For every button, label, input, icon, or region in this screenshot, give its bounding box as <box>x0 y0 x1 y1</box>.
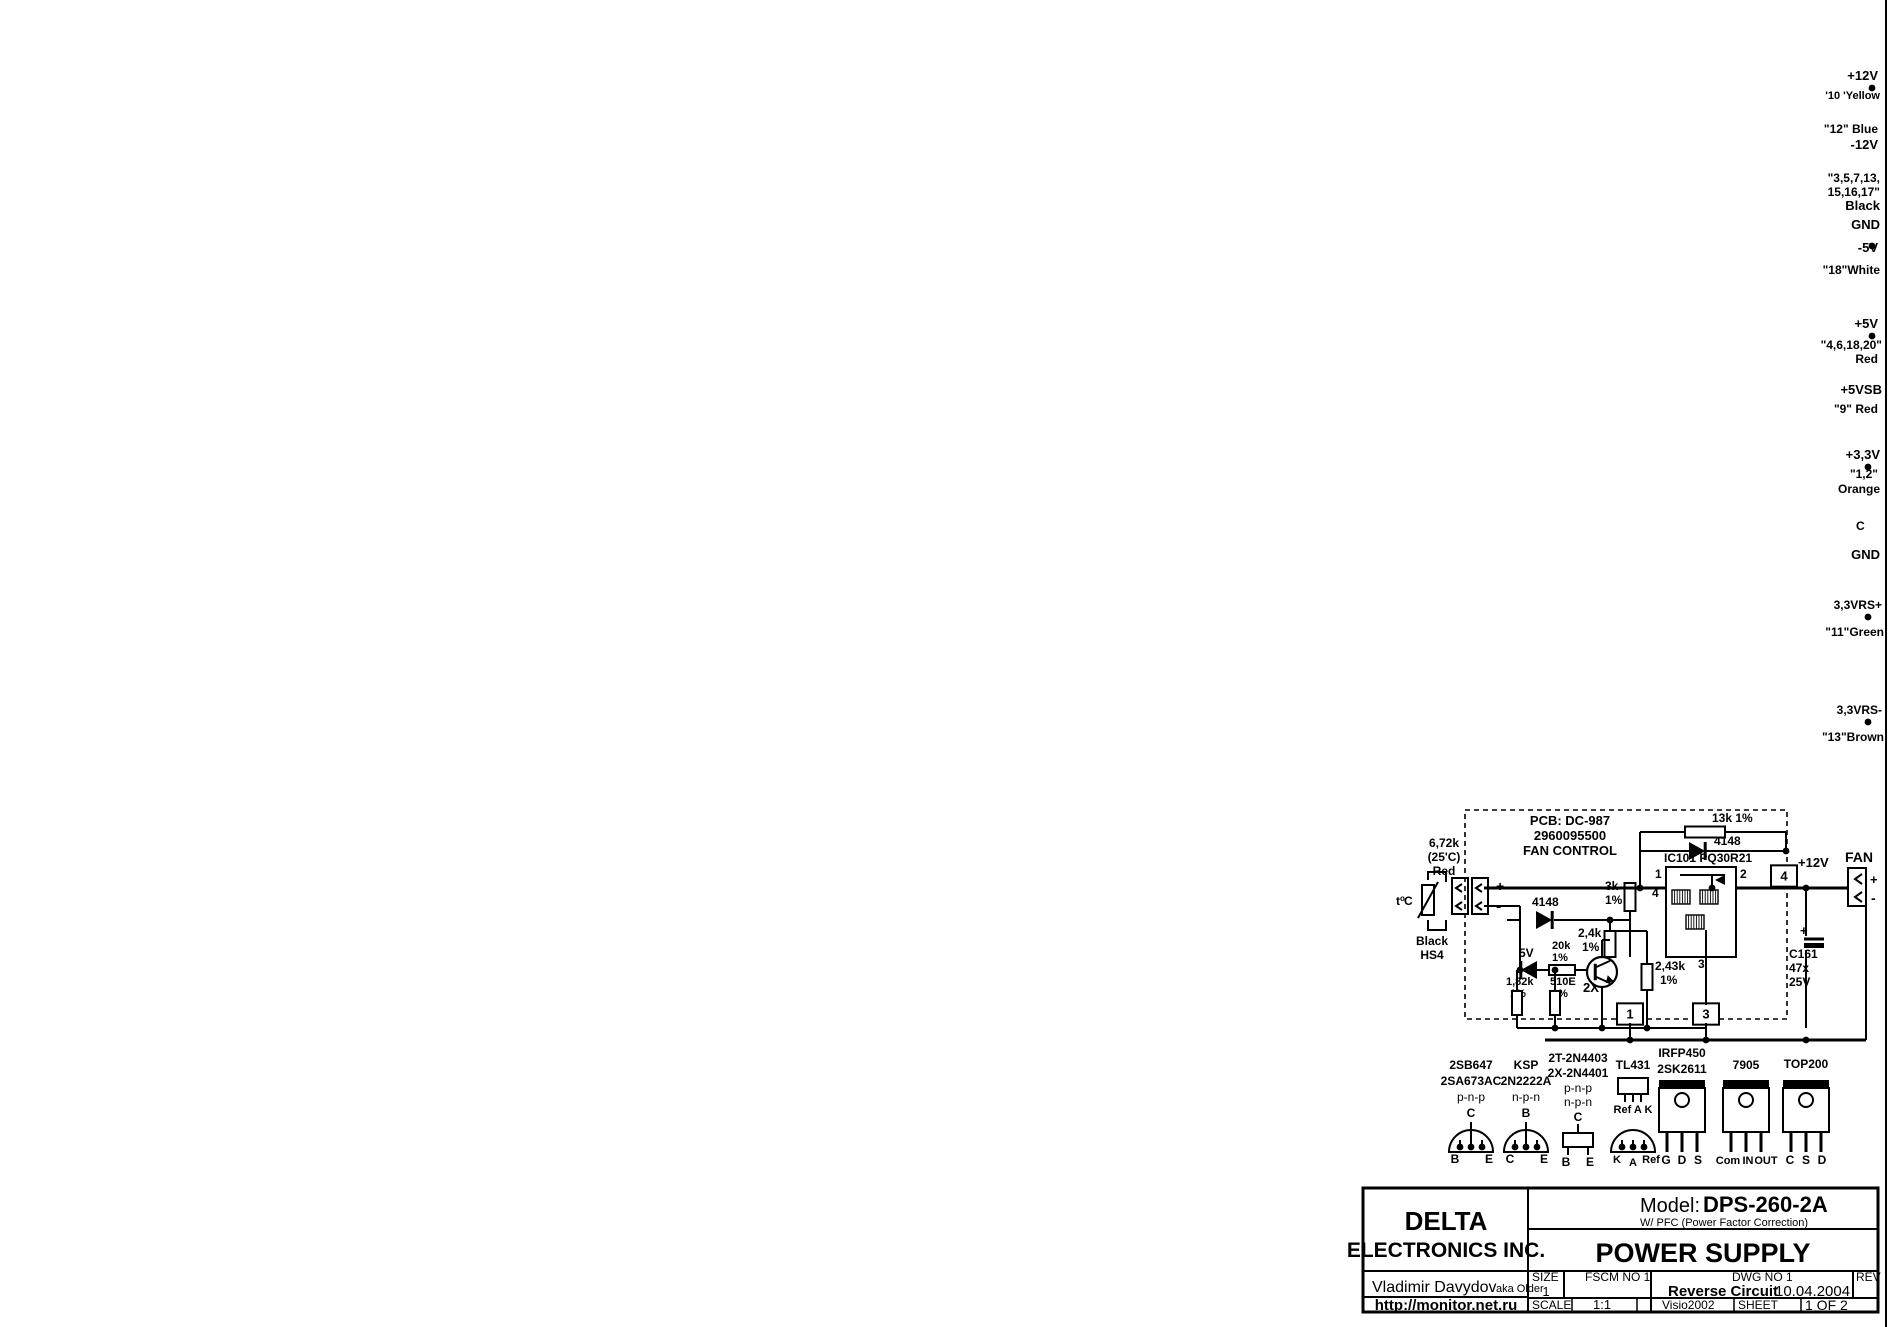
svg-text:p-n-p: p-n-p <box>1457 1090 1485 1104</box>
svg-text:IC101 PQ30R21: IC101 PQ30R21 <box>1664 851 1752 865</box>
svg-text:B: B <box>1562 1155 1571 1169</box>
right border <box>1885 0 1887 1327</box>
svg-text:S: S <box>1802 1153 1810 1167</box>
svg-text:7905: 7905 <box>1733 1058 1760 1072</box>
svg-text:C: C <box>1467 1106 1476 1120</box>
svg-text:C: C <box>1786 1153 1795 1167</box>
svg-text:KSP: KSP <box>1514 1058 1539 1072</box>
svg-text:2SA673AC: 2SA673AC <box>1441 1074 1502 1088</box>
svg-text:13k 1%: 13k 1% <box>1712 811 1753 825</box>
fan bottom wire <box>1629 1023 1631 1040</box>
svg-text:D: D <box>1678 1153 1687 1167</box>
svg-text:2: 2 <box>1740 867 1747 881</box>
svg-text:n-p-n: n-p-n <box>1564 1095 1592 1109</box>
svg-text:E: E <box>1485 1152 1493 1166</box>
svg-text:Black: Black <box>1845 198 1880 213</box>
svg-text:5V: 5V <box>1519 946 1534 960</box>
svg-text:1,82k: 1,82k <box>1506 976 1534 988</box>
fan wires <box>1484 887 1666 890</box>
svg-text:SCALE: SCALE <box>1532 1298 1571 1312</box>
svg-text:6,72k: 6,72k <box>1429 836 1459 850</box>
svg-text:2960095500: 2960095500 <box>1534 828 1606 843</box>
svg-text:POWER SUPPLY: POWER SUPPLY <box>1595 1238 1810 1268</box>
svg-text:2N2222A: 2N2222A <box>1501 1074 1552 1088</box>
svg-text:1%: 1% <box>1552 952 1568 964</box>
svg-text:n-p-n: n-p-n <box>1512 1090 1540 1104</box>
svg-text:15,16,17": 15,16,17" <box>1828 185 1880 199</box>
svg-text:25V: 25V <box>1789 975 1810 989</box>
svg-text:p-n-p: p-n-p <box>1564 1081 1592 1095</box>
svg-text:Model:: Model: <box>1640 1195 1700 1217</box>
svg-text:1%: 1% <box>1582 940 1600 954</box>
svg-text:Vladimir Davydov: Vladimir Davydov <box>1372 1279 1496 1296</box>
svg-text:HS4: HS4 <box>1420 948 1444 962</box>
svg-text:TOP200: TOP200 <box>1784 1057 1829 1071</box>
svg-text:1:1: 1:1 <box>1593 1297 1611 1312</box>
svg-text:FSCM NO 1: FSCM NO 1 <box>1585 1270 1651 1284</box>
svg-text:S: S <box>1694 1153 1702 1167</box>
svg-text:E: E <box>1586 1155 1594 1169</box>
svg-text:+: + <box>1870 872 1878 887</box>
fan conn 4 <box>1771 865 1797 886</box>
svg-text:20k: 20k <box>1552 940 1571 952</box>
svg-text:OUT: OUT <box>1754 1155 1778 1167</box>
svg-text:C: C <box>1506 1152 1515 1166</box>
svg-text:Visio2002: Visio2002 <box>1662 1298 1715 1312</box>
svg-text:1: 1 <box>1626 1007 1633 1022</box>
svg-text:W/ PFC (Power Factor Correctio: W/ PFC (Power Factor Correction) <box>1640 1217 1808 1229</box>
svg-text:1 OF 2: 1 OF 2 <box>1805 1297 1848 1313</box>
svg-text:+3,3V: +3,3V <box>1846 447 1881 462</box>
svg-text:ELECTRONICS INC.: ELECTRONICS INC. <box>1347 1239 1545 1262</box>
svg-text:C: C <box>1404 894 1413 908</box>
svg-text:"3,5,7,13,: "3,5,7,13, <box>1828 171 1880 185</box>
svg-text:SIZE: SIZE <box>1532 1270 1559 1284</box>
svg-text:4: 4 <box>1780 869 1788 884</box>
svg-text:-12V: -12V <box>1851 137 1879 152</box>
svg-text:Red: Red <box>1855 352 1878 366</box>
svg-text:http://monitor.net.ru: http://monitor.net.ru <box>1375 1297 1517 1314</box>
svg-text:1%: 1% <box>1605 893 1623 907</box>
svg-text:IRFP450: IRFP450 <box>1658 1046 1706 1060</box>
fan conn 1 <box>1617 1003 1643 1024</box>
svg-text:FAN CONTROL: FAN CONTROL <box>1523 843 1617 858</box>
svg-text:+5VSB: +5VSB <box>1840 382 1882 397</box>
svg-text:A: A <box>1629 1157 1637 1169</box>
svg-text:4148: 4148 <box>1532 895 1559 909</box>
svg-text:"11"Green: "11"Green <box>1825 625 1884 639</box>
svg-text:4148: 4148 <box>1714 834 1741 848</box>
svg-text:GND: GND <box>1851 547 1880 562</box>
svg-text:K: K <box>1613 1154 1621 1166</box>
svg-text:"4,6,18,20": "4,6,18,20" <box>1821 338 1882 352</box>
svg-text:+5V: +5V <box>1855 316 1879 331</box>
fan conn 3 <box>1693 1003 1719 1024</box>
svg-text:"13"Brown: "13"Brown <box>1822 730 1884 744</box>
svg-text:510E: 510E <box>1550 976 1576 988</box>
svg-text:"1,2": "1,2" <box>1850 467 1878 481</box>
svg-text:C161: C161 <box>1789 947 1818 961</box>
svg-text:3,3VRS+: 3,3VRS+ <box>1834 598 1882 612</box>
svg-text:E: E <box>1540 1152 1548 1166</box>
svg-text:"12" Blue: "12" Blue <box>1824 122 1878 136</box>
svg-text:GND: GND <box>1851 217 1880 232</box>
svg-text:C: C <box>1856 519 1865 533</box>
svg-text:"9" Red: "9" Red <box>1834 402 1878 416</box>
svg-text:PCB: DC-987: PCB: DC-987 <box>1530 813 1610 828</box>
fan control dashed box <box>1465 810 1787 1019</box>
svg-text:B: B <box>1522 1106 1531 1120</box>
svg-text:2SK2611: 2SK2611 <box>1657 1062 1707 1076</box>
svg-text:TL431: TL431 <box>1616 1058 1651 1072</box>
title model row <box>1528 1228 1878 1230</box>
svg-text:Com: Com <box>1716 1155 1741 1167</box>
svg-text:Ref A K: Ref A K <box>1614 1104 1653 1116</box>
svg-text:(25'C): (25'C) <box>1428 850 1461 864</box>
svg-text:DWG NO 1: DWG NO 1 <box>1732 1270 1793 1284</box>
svg-text:1: 1 <box>1542 1284 1549 1299</box>
title size row <box>1563 1271 1565 1298</box>
svg-text:Ref: Ref <box>1642 1154 1660 1166</box>
svg-text:DPS-260-2A: DPS-260-2A <box>1703 1192 1828 1217</box>
svg-text:3: 3 <box>1698 957 1705 971</box>
svg-text:D: D <box>1818 1153 1827 1167</box>
svg-text:Black: Black <box>1416 934 1448 948</box>
svg-text:B: B <box>1451 1152 1460 1166</box>
svg-text:1%: 1% <box>1660 973 1678 987</box>
svg-text:3: 3 <box>1702 1007 1709 1022</box>
svg-text:DELTA: DELTA <box>1405 1206 1488 1236</box>
svg-text:3k: 3k <box>1605 879 1619 893</box>
title block frame <box>1363 1188 1878 1312</box>
fan connector J <box>1452 878 1468 914</box>
svg-text:+: + <box>1496 878 1504 894</box>
svg-text:C: C <box>1574 1110 1583 1124</box>
svg-text:2,4k: 2,4k <box>1578 926 1602 940</box>
title scale row <box>1528 1297 1878 1299</box>
svg-text:aka Older: aka Older <box>1496 1283 1544 1295</box>
svg-text:"18"White: "18"White <box>1823 263 1881 277</box>
svg-text:+12V: +12V <box>1798 855 1829 870</box>
svg-text:-: - <box>1871 890 1876 906</box>
svg-text:-5V: -5V <box>1858 240 1879 255</box>
svg-text:2SB647: 2SB647 <box>1449 1058 1493 1072</box>
svg-text:FAN: FAN <box>1845 849 1873 865</box>
svg-text:1: 1 <box>1655 867 1662 881</box>
svg-text:IN: IN <box>1743 1155 1754 1167</box>
svg-text:2T-2N4403: 2T-2N4403 <box>1548 1051 1608 1065</box>
svg-text:G: G <box>1661 1153 1670 1167</box>
svg-text:'10 'Yellow: '10 'Yellow <box>1825 90 1880 102</box>
svg-text:+12V: +12V <box>1847 68 1878 83</box>
svg-text:Orange: Orange <box>1838 482 1880 496</box>
svg-text:2X-2N4401: 2X-2N4401 <box>1548 1066 1609 1080</box>
svg-text:3,3VRS-: 3,3VRS- <box>1837 703 1882 717</box>
svg-text:2,43k: 2,43k <box>1655 959 1685 973</box>
svg-text:REV: REV <box>1856 1270 1881 1284</box>
svg-text:SHEET: SHEET <box>1738 1298 1779 1312</box>
